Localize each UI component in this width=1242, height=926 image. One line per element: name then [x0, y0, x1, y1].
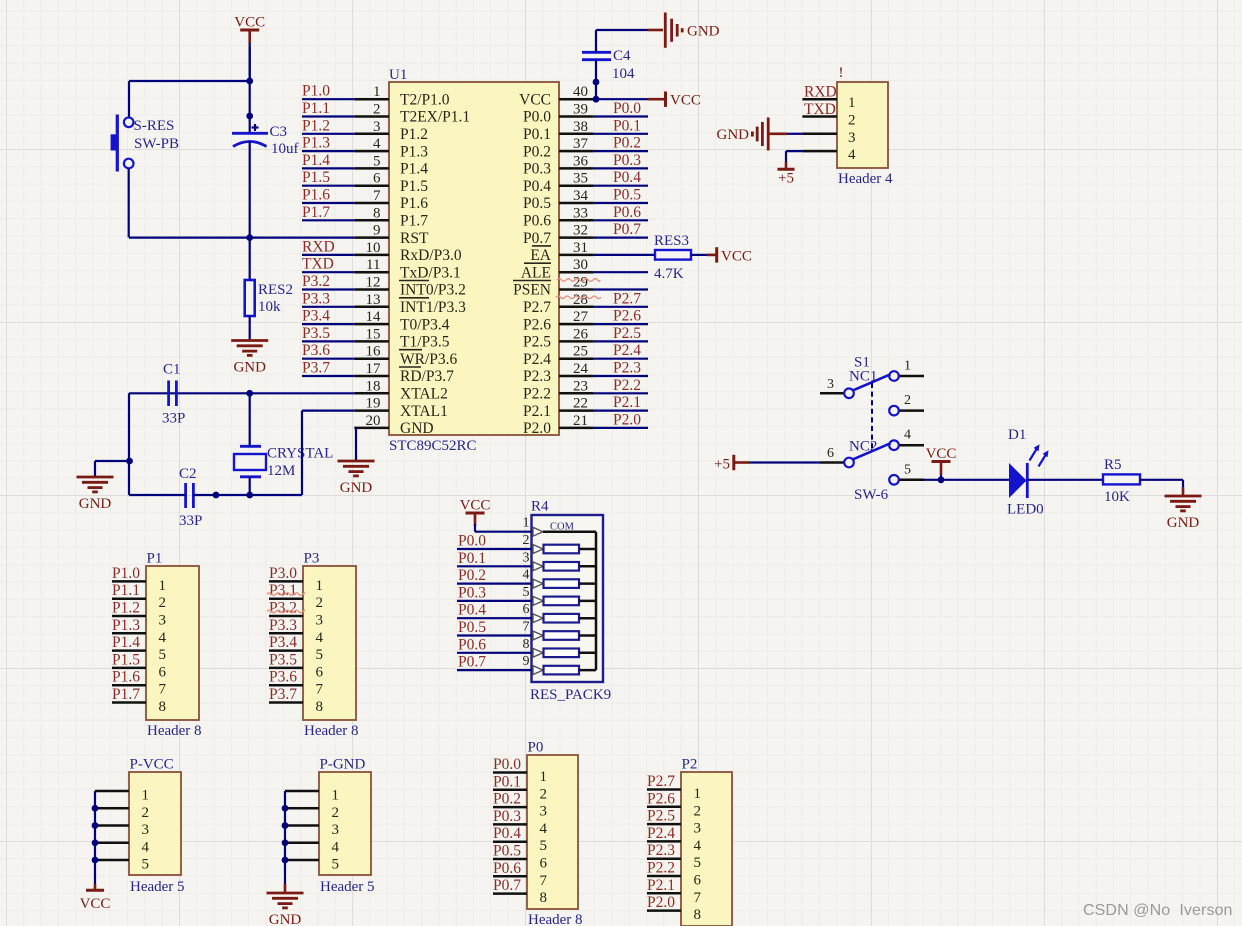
svg-text:3: 3 [827, 377, 834, 392]
P2 pin 7 wire and net label P2.1 [647, 877, 702, 906]
ground GND left of crystal [77, 476, 114, 479]
svg-text:P2.5: P2.5 [613, 325, 641, 342]
P-VCC pin 5 [95, 857, 149, 873]
svg-text:LED0: LED0 [1007, 502, 1044, 518]
svg-text:P1.7: P1.7 [112, 686, 140, 703]
svg-text:104: 104 [612, 66, 635, 82]
P1 pin 7 wire and net label P1.6 [112, 669, 167, 698]
svg-text:P3.2: P3.2 [302, 273, 330, 290]
svg-text:P2: P2 [682, 757, 698, 773]
wire and net label P2.5 (pin 26) [594, 325, 648, 342]
wire and net label P1.2 [302, 117, 354, 134]
power port GND top (rotated) [665, 13, 719, 48]
power port VCC at R4 [460, 498, 491, 514]
designator S1 [854, 355, 870, 371]
U1 pin 26 P2.5 [523, 326, 594, 350]
svg-text:1: 1 [332, 788, 340, 804]
U1 pin 14 T0/P3.4 [354, 309, 449, 333]
U1 pin 6 P1.5 [354, 171, 428, 195]
svg-text:4: 4 [373, 136, 381, 152]
svg-text:P2.3: P2.3 [613, 360, 641, 377]
svg-text:18: 18 [366, 378, 381, 394]
svg-text:25: 25 [573, 344, 588, 360]
resistor RES3 4.7K [654, 233, 691, 282]
svg-text:GND: GND [717, 127, 750, 143]
svg-text:3: 3 [142, 822, 150, 838]
svg-text:P0: P0 [528, 740, 544, 756]
svg-text:15: 15 [366, 326, 381, 342]
wire RST row [129, 234, 354, 241]
P0 pin 2 wire and net label P0.1 [493, 773, 547, 802]
svg-text:C4: C4 [613, 48, 631, 64]
svg-text:8: 8 [523, 637, 530, 652]
svg-text:P0.4: P0.4 [523, 178, 551, 195]
power port +5 at S1 [714, 455, 749, 473]
svg-text:4: 4 [332, 839, 340, 855]
svg-text:P0.7: P0.7 [458, 654, 486, 671]
svg-text:INT1/P3.3: INT1/P3.3 [400, 299, 466, 316]
P1 pin 8 wire and net label P1.7 [112, 686, 166, 715]
svg-text:P0.5: P0.5 [523, 195, 551, 212]
svg-text:4: 4 [904, 428, 911, 443]
ERC squiggle pin 29 [557, 279, 600, 282]
wire and net label P1.6 [302, 187, 354, 204]
svg-text:P0.2: P0.2 [493, 791, 521, 808]
U1 pin 13 INT1/P3.3 [354, 292, 466, 316]
P2 pin 1 wire and net label P2.7 [647, 773, 701, 802]
svg-text:32: 32 [573, 223, 588, 239]
U1 pin 3 P1.2 [354, 119, 428, 143]
P0 pin 8 wire and net label P0.7 [493, 877, 547, 906]
wire and net label P1.3 [302, 135, 354, 152]
svg-text:2: 2 [694, 803, 702, 819]
svg-text:5: 5 [523, 585, 530, 600]
wire and net label P0.5 (pin 34) [594, 187, 648, 204]
svg-text:36: 36 [573, 153, 589, 169]
P2 pin 3 wire and net label P2.5 [647, 808, 701, 837]
svg-text:P1.7: P1.7 [302, 204, 330, 221]
wire R5 to GND [1140, 480, 1183, 496]
svg-text:3: 3 [159, 613, 167, 629]
wire and net label P0.1 at R4 [457, 550, 532, 567]
U1 pin 10 RxD/P3.0 [354, 240, 461, 264]
svg-text:7: 7 [316, 682, 324, 698]
U1 pin 35 P0.4 [523, 171, 594, 195]
junction dot pin40/C4 [593, 96, 600, 103]
connector P-GND body [319, 772, 371, 875]
svg-text:35: 35 [573, 171, 588, 187]
svg-text:P2.0: P2.0 [647, 894, 675, 911]
svg-text:P2.4: P2.4 [523, 351, 551, 368]
svg-text:1: 1 [904, 359, 911, 374]
svg-text:P1.3: P1.3 [112, 617, 140, 634]
P2 pin 4 wire and net label P2.4 [647, 825, 702, 854]
P1 pin 5 wire and net label P1.4 [112, 634, 166, 663]
svg-text:R4: R4 [531, 499, 549, 515]
svg-text:4: 4 [142, 839, 150, 855]
wire switch bottom to RST net [128, 169, 130, 238]
svg-text:GND: GND [233, 360, 266, 376]
connector P-VCC body [129, 772, 181, 875]
svg-text:33P: 33P [179, 513, 202, 529]
svg-text:TxD/P3.1: TxD/P3.1 [400, 264, 461, 281]
svg-text:P0.1: P0.1 [523, 126, 551, 143]
svg-text:17: 17 [366, 361, 382, 377]
wire and net label P3.2 [302, 273, 354, 290]
Header4 pin 1 [802, 95, 855, 111]
wire and net label P0.6 (pin 33) [594, 204, 648, 221]
U1 pin 27 P2.6 [523, 309, 594, 333]
svg-text:C1: C1 [163, 362, 181, 378]
svg-text:P2.0: P2.0 [613, 411, 641, 428]
svg-text:P0.2: P0.2 [458, 567, 486, 584]
svg-text:P2.7: P2.7 [523, 299, 551, 316]
svg-text:P0.1: P0.1 [613, 117, 641, 134]
svg-text:P0.4: P0.4 [458, 602, 486, 619]
svg-text:12: 12 [366, 275, 381, 291]
wire C3 bottom to RST [249, 141, 251, 238]
P2 pin 8 wire and net label P2.0 [647, 894, 701, 923]
R4 pin 2 resistor [523, 533, 597, 553]
svg-text:11: 11 [366, 257, 380, 273]
U1 pin 12 INT0/P3.2 [354, 275, 465, 299]
svg-text:Header 4: Header 4 [838, 171, 893, 187]
svg-text:P2.7: P2.7 [613, 290, 641, 307]
svg-text:P3.5: P3.5 [302, 325, 330, 342]
svg-text:4: 4 [848, 147, 856, 163]
svg-text:P2.6: P2.6 [647, 790, 675, 807]
wire and net label P0.2 at R4 [457, 567, 532, 584]
svg-text:S-RES: S-RES [134, 118, 175, 134]
R4 pin 5 resistor [523, 585, 597, 605]
svg-text:1: 1 [848, 95, 856, 111]
label RES_PACK9 [530, 687, 611, 703]
svg-text:21: 21 [573, 413, 588, 429]
R4 common rail [595, 532, 598, 670]
wire and net label P3.6 [302, 342, 354, 359]
svg-text:T0/P3.4: T0/P3.4 [400, 316, 450, 333]
P3 pin 5 wire and net label P3.4 [269, 634, 323, 663]
svg-text:P2.4: P2.4 [613, 342, 641, 359]
capacitor C3 10uf [232, 81, 299, 157]
U1 pin 7 P1.6 [354, 188, 428, 212]
switch S-RES SW-PB [111, 115, 179, 172]
svg-text:10K: 10K [1104, 489, 1130, 505]
P1 pin 6 wire and net label P1.5 [112, 651, 167, 680]
svg-text:R5: R5 [1104, 457, 1122, 473]
svg-text:P1.4: P1.4 [400, 161, 428, 178]
svg-text:5: 5 [332, 857, 340, 873]
power port GND at header (bars left) [717, 118, 769, 151]
U1 pin 15 T1/P3.5 [354, 326, 449, 350]
svg-text:40: 40 [573, 84, 588, 100]
svg-text:P0.5: P0.5 [458, 619, 486, 636]
svg-text:Header 8: Header 8 [147, 723, 202, 739]
P0 pin 6 wire and net label P0.5 [493, 843, 548, 872]
P-VCC pin 2 [95, 805, 149, 821]
svg-text:P0.7: P0.7 [523, 230, 551, 247]
svg-text:T2EX/P1.1: T2EX/P1.1 [400, 109, 470, 126]
wire on pin 29 PSEN [594, 288, 648, 290]
U1 pin 22 P2.1 [523, 396, 594, 420]
svg-text:P1.0: P1.0 [302, 83, 330, 100]
S1 pin 1 [889, 359, 924, 381]
svg-text:RES3: RES3 [654, 233, 689, 249]
svg-text:31: 31 [573, 240, 588, 256]
R4 pin 4 resistor [523, 568, 597, 588]
label Header 8 under P1 [147, 723, 202, 739]
svg-text:5: 5 [159, 647, 167, 663]
svg-text:P3.4: P3.4 [269, 634, 297, 651]
svg-text:3: 3 [694, 821, 702, 837]
wire RES2 to ground [249, 316, 251, 340]
wire pin 40 to VCC [596, 98, 664, 100]
net label TXD at header [804, 101, 836, 118]
svg-text:2: 2 [142, 805, 150, 821]
svg-text:VCC: VCC [721, 248, 752, 264]
P3 pin 2 wire and net label P3.1 [267, 582, 323, 611]
svg-text:13: 13 [366, 292, 381, 308]
S1 pin 6 [820, 446, 854, 467]
U1 pin 36 P0.3 [523, 153, 594, 177]
svg-text:4: 4 [316, 630, 324, 646]
svg-text:5: 5 [540, 838, 548, 854]
svg-text:P1.1: P1.1 [302, 100, 330, 117]
svg-text:P2.3: P2.3 [647, 842, 675, 859]
resistor RES2 10k [245, 238, 293, 316]
P2 pin 2 wire and net label P2.6 [647, 790, 701, 819]
wire and net label P3.7 [302, 360, 354, 377]
svg-text:1: 1 [373, 84, 381, 100]
U1 pin 11 TxD/P3.1 [354, 257, 460, 281]
svg-text:24: 24 [573, 361, 589, 377]
svg-text:P3.4: P3.4 [302, 308, 330, 325]
svg-text:27: 27 [573, 309, 589, 325]
svg-text:4: 4 [540, 821, 548, 837]
R4 pin 9 resistor [523, 654, 597, 674]
svg-text:5: 5 [694, 855, 702, 871]
wire and net label P1.0 [302, 83, 354, 100]
svg-text:4.7K: 4.7K [654, 266, 684, 282]
svg-text:P1.5: P1.5 [400, 178, 428, 195]
connector P3 body [303, 566, 356, 720]
svg-text:P0.4: P0.4 [613, 169, 641, 186]
svg-text:VCC: VCC [670, 93, 701, 109]
svg-text:P0.3: P0.3 [458, 584, 486, 601]
svg-text:!: ! [839, 65, 844, 81]
wire and net label P0.3 (pin 36) [594, 152, 648, 169]
P2 pin 5 wire and net label P2.3 [647, 842, 701, 871]
svg-text:Header 5: Header 5 [130, 879, 185, 895]
svg-text:4: 4 [523, 568, 530, 583]
svg-text:P0.7: P0.7 [493, 877, 521, 894]
svg-text:28: 28 [573, 292, 588, 308]
svg-text:5: 5 [904, 462, 911, 477]
svg-text:P3: P3 [304, 551, 320, 567]
Header4 pin 2 [802, 113, 855, 129]
wire S1 pin5 to LED [924, 476, 1009, 483]
P0 pin 7 wire and net label P0.6 [493, 860, 548, 889]
svg-text:P2.1: P2.1 [613, 394, 641, 411]
svg-text:P3.7: P3.7 [269, 686, 297, 703]
svg-text:14: 14 [366, 309, 382, 325]
svg-text:8: 8 [159, 699, 167, 715]
designator P2 [682, 757, 698, 773]
svg-text:6: 6 [694, 873, 702, 889]
svg-text:7: 7 [540, 873, 548, 889]
wire LED to R5 [1027, 479, 1103, 481]
svg-text:RXD: RXD [804, 84, 837, 101]
P-VCC bus wire [92, 791, 99, 890]
svg-text:P2.5: P2.5 [647, 808, 675, 825]
wire and net label P2.3 (pin 24) [594, 360, 648, 377]
svg-text:Header 8: Header 8 [304, 723, 359, 739]
svg-text:37: 37 [573, 136, 589, 152]
svg-text:WR/P3.6: WR/P3.6 [400, 351, 458, 368]
IC U1 STC89C52RC body [389, 82, 559, 435]
connector P1 body [146, 566, 199, 720]
svg-text:10: 10 [366, 240, 381, 256]
svg-text:P-VCC: P-VCC [130, 757, 174, 773]
U1 pin 9 RST [354, 223, 429, 247]
svg-text:6: 6 [540, 856, 548, 872]
svg-text:23: 23 [573, 378, 588, 394]
wire and net label P1.4 [302, 152, 354, 169]
svg-text:GND: GND [340, 480, 373, 496]
U1 pin 38 P0.1 [523, 119, 594, 143]
resistor pack R4 body [532, 515, 604, 682]
designator P3 [304, 551, 320, 567]
svg-text:XTAL1: XTAL1 [400, 403, 448, 420]
P0 pin 1 wire and net label P0.0 [493, 756, 547, 785]
svg-text:39: 39 [573, 102, 588, 118]
P-GND pin 3 [285, 822, 339, 838]
svg-text:3: 3 [848, 130, 856, 146]
svg-text:P0.6: P0.6 [613, 204, 641, 221]
power port VCC reset [234, 15, 265, 31]
svg-text:C2: C2 [179, 466, 197, 482]
svg-text:1: 1 [694, 786, 702, 802]
svg-text:P2.0: P2.0 [523, 420, 551, 437]
label NC1 [849, 369, 877, 385]
P1 pin 4 wire and net label P1.3 [112, 617, 167, 646]
svg-text:10uf: 10uf [271, 141, 299, 157]
svg-text:P0.3: P0.3 [613, 152, 641, 169]
svg-text:P0.5: P0.5 [493, 843, 521, 860]
U1 pin 4 P1.3 [354, 136, 428, 160]
R4 pin 6 resistor [523, 602, 597, 622]
svg-text:33P: 33P [162, 411, 185, 427]
svg-text:VCC: VCC [234, 15, 265, 31]
svg-text:33: 33 [573, 205, 588, 221]
svg-text:P0.3: P0.3 [523, 161, 551, 178]
S1 contact NC2 blade [853, 443, 891, 459]
svg-text:P2.4: P2.4 [647, 825, 675, 842]
capacitor C2 33P [179, 466, 202, 529]
svg-text:P1.2: P1.2 [400, 126, 428, 143]
svg-text:RxD/P3.0: RxD/P3.0 [400, 247, 462, 264]
U1 pin 23 P2.2 [523, 378, 594, 402]
power port VCC at RES3 [717, 247, 752, 264]
svg-text:16: 16 [366, 344, 382, 360]
wire and net label P2.0 (pin 21) [594, 411, 648, 428]
wire and net label P0.0 at R4 [457, 533, 532, 550]
U1 pin 25 P2.4 [523, 344, 594, 368]
P-GND pin 4 [285, 839, 340, 855]
wire and net label P2.6 (pin 27) [594, 308, 648, 325]
label Header 4 [838, 171, 893, 187]
P0 pin 4 wire and net label P0.3 [493, 808, 548, 837]
svg-text:P2.1: P2.1 [523, 403, 551, 420]
U1 pin 16 WR/P3.6 [354, 344, 457, 368]
wire header pin3 to GND [769, 133, 802, 135]
U1 pin 5 P1.4 [354, 153, 428, 177]
U1 pin 34 P0.5 [523, 188, 594, 212]
svg-text:29: 29 [573, 275, 588, 291]
label Header 5 under P-VCC [130, 879, 185, 895]
wire and net label P2.4 (pin 25) [594, 342, 648, 359]
wire and net label P1.1 [302, 100, 354, 117]
svg-text:P0.3: P0.3 [493, 808, 521, 825]
U1 pin 20 GND [354, 413, 433, 437]
connector P0 body [527, 755, 578, 909]
wire and net label P0.7 at R4 [457, 654, 532, 671]
U1 pin 24 P2.3 [523, 361, 594, 385]
svg-text:VCC: VCC [460, 498, 491, 514]
label Header 8 under P3 [304, 723, 359, 739]
designator U1 [389, 67, 407, 83]
svg-text:GND: GND [269, 912, 302, 926]
ERC squiggle pin 28 [556, 296, 601, 299]
svg-text:VCC: VCC [80, 896, 111, 912]
svg-text:7: 7 [694, 890, 702, 906]
svg-text:3: 3 [523, 550, 530, 565]
svg-text:P1.3: P1.3 [302, 135, 330, 152]
svg-text:P3.6: P3.6 [269, 669, 297, 686]
svg-text:34: 34 [573, 188, 589, 204]
svg-text:ALE: ALE [521, 264, 551, 281]
svg-text:PSEN: PSEN [513, 282, 551, 299]
wire and net label P2.2 (pin 23) [594, 377, 648, 394]
connector P2 body [681, 772, 732, 926]
label SW-6 [854, 487, 889, 503]
U1 pin 31 EA [530, 240, 593, 264]
wire GND pin 20 [354, 428, 356, 461]
P-GND bus wire [282, 791, 289, 893]
svg-text:P3.3: P3.3 [269, 617, 297, 634]
svg-text:P0.6: P0.6 [458, 636, 486, 653]
P3 pin 8 wire and net label P3.7 [269, 686, 323, 715]
svg-text:26: 26 [573, 326, 589, 342]
svg-text:P3.7: P3.7 [302, 360, 330, 377]
U1 pin 2 T2EX/P1.1 [354, 102, 470, 126]
svg-text:6: 6 [373, 171, 381, 187]
svg-text:P1.5: P1.5 [112, 651, 140, 668]
svg-text:TXD: TXD [804, 101, 836, 118]
S1 contact NC1 blade [853, 374, 891, 390]
ground GND below U1 [338, 460, 375, 463]
U1 pin 30 ALE [521, 257, 594, 281]
capacitor C4 104 [582, 48, 635, 82]
svg-text:2: 2 [159, 595, 167, 611]
svg-text:P0.0: P0.0 [458, 533, 486, 550]
wire VCC down to junction [246, 47, 253, 84]
ground GND below P-GND [267, 892, 304, 895]
U1 pin 33 P0.6 [523, 205, 594, 229]
svg-text:1: 1 [523, 516, 530, 531]
P2 pin 6 wire and net label P2.2 [647, 860, 702, 889]
wire and net label P0.2 (pin 37) [594, 135, 648, 152]
